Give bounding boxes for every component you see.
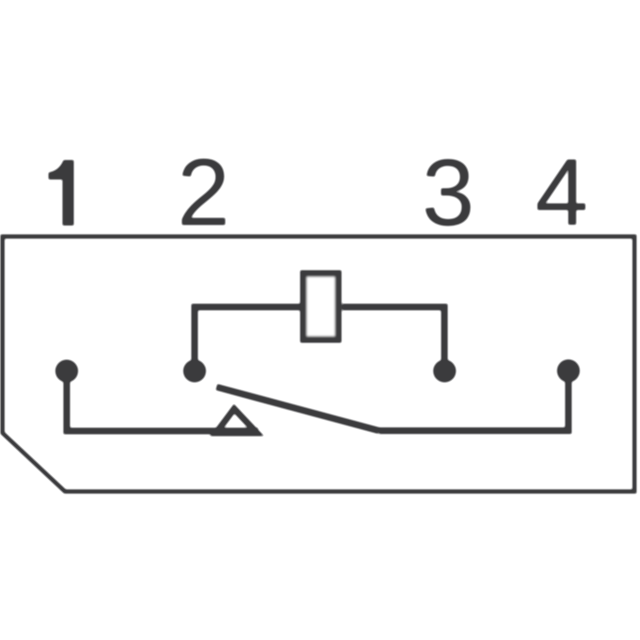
svg-text:4: 4 xyxy=(535,140,588,246)
switch blade xyxy=(217,387,380,431)
wire pin4 to blade contact xyxy=(379,371,568,431)
contact triangle xyxy=(216,409,257,433)
package outline xyxy=(3,237,635,492)
terminal dot pin3 xyxy=(433,360,456,383)
actuator element (rectangle) xyxy=(303,274,338,340)
svg-text:2: 2 xyxy=(177,140,230,246)
svg-text:3: 3 xyxy=(422,140,475,246)
wire coil right to pin3 xyxy=(342,307,444,371)
pin label 1 xyxy=(49,160,74,226)
terminal dot pin2 xyxy=(183,360,206,383)
terminal dot pin1 xyxy=(55,360,78,383)
wire pin2 to coil left xyxy=(195,307,303,371)
wire pin1 to common contact xyxy=(67,371,258,431)
terminal dot pin4 xyxy=(557,359,580,382)
